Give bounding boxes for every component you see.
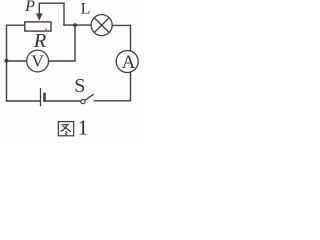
wire: battery to switch [45, 100, 81, 102]
wire: bottom left to battery [7, 100, 40, 102]
ammeter A circle [116, 51, 138, 73]
switch S pivot circle [81, 100, 85, 104]
slider arrowhead [36, 13, 42, 21]
wire: lamp left to slider riser [64, 24, 91, 26]
svg-text:A: A [122, 52, 136, 73]
node: junction dot at slider/lamp/voltmeter [73, 23, 77, 27]
battery cell: short thick plate [43, 93, 46, 102]
wire: rheostat left terminal [7, 24, 25, 26]
switch lever [85, 94, 94, 100]
wire: voltmeter left [7, 60, 27, 62]
wire: switch to bottom right corner and up to ammeter [94, 72, 130, 101]
caption glyph 图 box [58, 122, 73, 136]
resistor R (rheostat body) [25, 22, 51, 31]
red tick mark inside rheostat [45, 29, 47, 31]
svg-text:L: L [81, 1, 91, 18]
svg-text:R: R [33, 30, 47, 52]
wire: ammeter to top right corner to lamp [112, 25, 130, 51]
wire: slider riser vertical [63, 3, 65, 25]
lamp X cross [94, 18, 109, 33]
svg-text:S: S [74, 75, 85, 97]
wire: voltmeter riser and top of voltmeter wire [48, 25, 75, 61]
svg-text:P: P [24, 0, 35, 15]
voltmeter U1 circle [27, 50, 49, 72]
wire: left vertical [6, 25, 8, 101]
lamp L circle [91, 15, 112, 36]
node: junction dot left edge [4, 59, 8, 63]
svg-text:V: V [31, 52, 44, 71]
slider arrow stem P [38, 3, 40, 14]
battery cell: long plate [40, 88, 42, 106]
wire: top horizontal [39, 2, 64, 4]
caption glyph 图 inner strokes (冬) [62, 123, 69, 126]
svg-text:1: 1 [78, 115, 89, 139]
